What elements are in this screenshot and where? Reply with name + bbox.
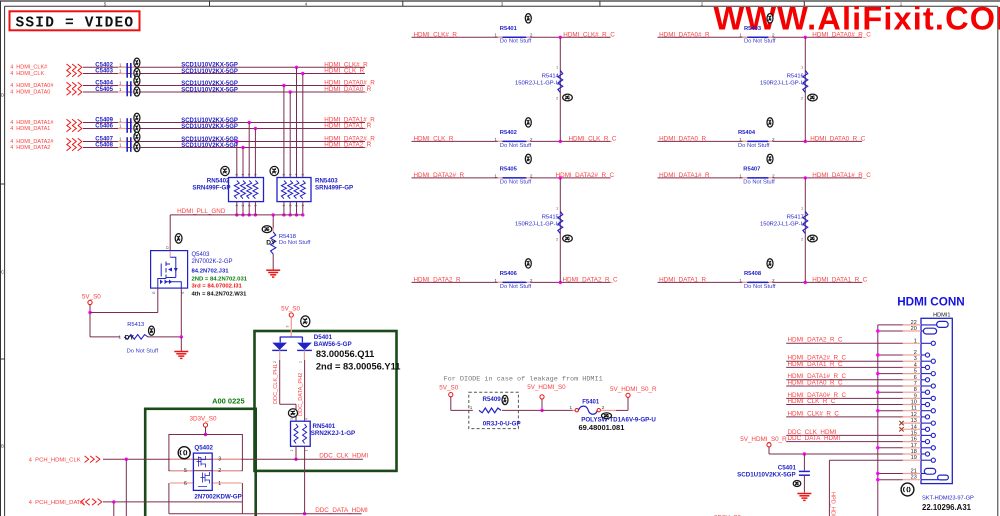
svg-text:3: 3 bbox=[241, 204, 245, 206]
svg-text:5V_HDMI_S0_R: 5V_HDMI_S0_R bbox=[610, 386, 657, 393]
svg-text:4 HDMI_DATA2: 4 HDMI_DATA2 bbox=[10, 145, 50, 151]
svg-text:1: 1 bbox=[556, 66, 558, 70]
svg-text:10: 10 bbox=[911, 400, 917, 406]
svg-text:Do Not Stuff: Do Not Stuff bbox=[500, 179, 532, 185]
svg-text:5V_S0: 5V_S0 bbox=[439, 385, 458, 392]
svg-text:SCD1U10V2KX-5GP: SCD1U10V2KX-5GP bbox=[181, 69, 238, 75]
svg-text:1: 1 bbox=[494, 173, 497, 178]
svg-text:Do Not Stuff: Do Not Stuff bbox=[744, 39, 776, 45]
svg-text:HDMI_DATA0#_R: HDMI_DATA0#_R bbox=[659, 31, 710, 38]
svg-text:1: 1 bbox=[494, 137, 497, 142]
svg-text:HDMI_CLK_R: HDMI_CLK_R bbox=[324, 68, 364, 75]
svg-text:R5405: R5405 bbox=[500, 167, 518, 173]
svg-text:2: 2 bbox=[530, 173, 533, 178]
svg-text:2: 2 bbox=[530, 137, 533, 142]
svg-text:R5413: R5413 bbox=[127, 322, 144, 328]
svg-text:69.48001.081: 69.48001.081 bbox=[579, 423, 625, 432]
svg-text:1: 1 bbox=[801, 66, 803, 70]
svg-text:1: 1 bbox=[494, 33, 497, 38]
svg-text:3rd = 84.07002.I31: 3rd = 84.07002.I31 bbox=[192, 284, 243, 290]
svg-text:Q5402: Q5402 bbox=[194, 445, 213, 452]
svg-text:SCD1U10V2KX-5GP: SCD1U10V2KX-5GP bbox=[181, 124, 238, 130]
svg-text:8: 8 bbox=[301, 173, 305, 175]
svg-text:1: 1 bbox=[299, 361, 303, 363]
svg-text:HDMI_DATA0_R_C: HDMI_DATA0_R_C bbox=[810, 136, 866, 143]
svg-text:150R2J-L1-GP-U: 150R2J-L1-GP-U bbox=[515, 222, 560, 228]
svg-text:G: G bbox=[152, 291, 156, 294]
svg-text:Do Not Stuff: Do Not Stuff bbox=[744, 284, 776, 290]
svg-text:4: 4 bbox=[235, 204, 239, 206]
svg-text:4: 4 bbox=[282, 204, 286, 206]
svg-text:7: 7 bbox=[247, 173, 251, 175]
svg-text:2: 2 bbox=[556, 238, 558, 242]
svg-text:R5415: R5415 bbox=[542, 215, 559, 221]
svg-text:1: 1 bbox=[494, 278, 497, 283]
svg-text:6: 6 bbox=[241, 173, 245, 175]
svg-text:D: D bbox=[165, 246, 170, 249]
svg-text:R5404: R5404 bbox=[738, 130, 756, 136]
svg-text:7: 7 bbox=[295, 173, 299, 175]
svg-text:4 PCH_HDMI_DATA: 4 PCH_HDMI_DATA bbox=[29, 500, 84, 506]
svg-text:SRN499F-GP: SRN499F-GP bbox=[192, 184, 230, 191]
svg-text:HDMI_CLK#_R: HDMI_CLK#_R bbox=[414, 31, 458, 38]
svg-text:C5404: C5404 bbox=[95, 81, 113, 87]
svg-text:F5401: F5401 bbox=[582, 400, 600, 406]
svg-text:HPD_HDMI: HPD_HDMI bbox=[830, 492, 836, 516]
svg-text:Do Not Stuff: Do Not Stuff bbox=[743, 179, 775, 185]
svg-text:1: 1 bbox=[556, 207, 558, 211]
svg-text:2N7002KDW-GP: 2N7002KDW-GP bbox=[194, 494, 241, 501]
svg-text:SKT-HDMI23-97-GP: SKT-HDMI23-97-GP bbox=[922, 496, 974, 502]
svg-text:HDMI_CLK_R_C: HDMI_CLK_R_C bbox=[569, 136, 617, 143]
svg-text:HDMI_DATA2#_R: HDMI_DATA2#_R bbox=[414, 172, 465, 179]
svg-text:R5402: R5402 bbox=[500, 130, 517, 136]
svg-text:3: 3 bbox=[914, 356, 917, 362]
svg-text:7: 7 bbox=[914, 381, 917, 387]
svg-text:SCD1U10V2KX-5GP: SCD1U10V2KX-5GP bbox=[181, 81, 238, 87]
svg-text:HDMI_DATA2_R: HDMI_DATA2_R bbox=[414, 277, 461, 284]
svg-text:14: 14 bbox=[911, 424, 917, 430]
svg-text:1: 1 bbox=[569, 405, 572, 410]
svg-text:1: 1 bbox=[218, 481, 221, 487]
svg-text:5: 5 bbox=[914, 369, 917, 375]
svg-text:HDMI_DATA0_R: HDMI_DATA0_R bbox=[324, 86, 371, 93]
svg-text:SCD1U10V2KX-5GP: SCD1U10V2KX-5GP bbox=[737, 472, 795, 479]
svg-text:18: 18 bbox=[911, 449, 917, 455]
svg-text:9: 9 bbox=[914, 393, 917, 399]
svg-text:2: 2 bbox=[772, 278, 775, 283]
svg-text:A00 0225: A00 0225 bbox=[212, 396, 245, 405]
svg-text:SCD1U10V2KX-5GP: SCD1U10V2KX-5GP bbox=[181, 87, 238, 93]
svg-text:4: 4 bbox=[914, 362, 917, 368]
svg-text:SRN2K2J-1-GP: SRN2K2J-1-GP bbox=[311, 430, 355, 437]
svg-text:6: 6 bbox=[288, 173, 292, 175]
svg-text:R5409: R5409 bbox=[483, 396, 502, 403]
svg-text:C5405: C5405 bbox=[95, 87, 113, 93]
svg-text:HDMI_DATA2#_R_C: HDMI_DATA2#_R_C bbox=[556, 172, 615, 179]
svg-text:R5403: R5403 bbox=[744, 26, 762, 32]
svg-text:HDMI_DATA1_R: HDMI_DATA1_R bbox=[324, 123, 371, 130]
svg-text:2: 2 bbox=[772, 137, 775, 142]
svg-text:17: 17 bbox=[911, 443, 917, 449]
svg-text:2: 2 bbox=[772, 33, 775, 38]
svg-text:RN5401: RN5401 bbox=[313, 423, 336, 430]
svg-text:1: 1 bbox=[739, 278, 742, 283]
svg-text:2ND = 84.2N702.031: 2ND = 84.2N702.031 bbox=[192, 276, 248, 282]
svg-text:4th = 84.2N702.W31: 4th = 84.2N702.W31 bbox=[192, 291, 248, 297]
svg-text:HDMI_DATA0_R: HDMI_DATA0_R bbox=[659, 136, 706, 143]
svg-text:2: 2 bbox=[273, 361, 277, 363]
svg-text:Do Not Stuff: Do Not Stuff bbox=[500, 39, 532, 45]
svg-text:SSID = VIDEO: SSID = VIDEO bbox=[16, 15, 135, 31]
svg-text:HDMI_DATA2_R: HDMI_DATA2_R bbox=[324, 142, 371, 149]
svg-text:R5407: R5407 bbox=[743, 167, 760, 173]
svg-text:Do Not Stuff: Do Not Stuff bbox=[127, 349, 159, 355]
svg-text:83.00056.Q11: 83.00056.Q11 bbox=[316, 349, 374, 359]
svg-text:1: 1 bbox=[739, 137, 742, 142]
svg-text:150R2J-L1-GP-U: 150R2J-L1-GP-U bbox=[760, 81, 805, 87]
svg-text:Do Not Stuff: Do Not Stuff bbox=[738, 143, 770, 149]
svg-text:16: 16 bbox=[911, 437, 917, 443]
svg-text:HDMI_DATA1_R: HDMI_DATA1_R bbox=[659, 277, 706, 284]
svg-text:DDC_DATA_HDMI: DDC_DATA_HDMI bbox=[315, 507, 368, 514]
svg-text:5V_S0: 5V_S0 bbox=[82, 294, 101, 301]
svg-text:HDMI_DATA1_R_C: HDMI_DATA1_R_C bbox=[788, 361, 844, 368]
svg-text:1: 1 bbox=[254, 204, 258, 206]
svg-text:3D3V_S0: 3D3V_S0 bbox=[190, 416, 217, 423]
svg-text:DY: DY bbox=[125, 334, 135, 341]
svg-text:BAW56-5-GP: BAW56-5-GP bbox=[314, 341, 352, 348]
svg-text:DDC_CLK_PH1: DDC_CLK_PH1 bbox=[273, 364, 279, 404]
svg-text:C5403: C5403 bbox=[95, 69, 113, 75]
svg-text:HDMI_DATA0_R_C: HDMI_DATA0_R_C bbox=[788, 379, 844, 386]
svg-text:15: 15 bbox=[911, 430, 917, 436]
svg-text:4 HDMI_DATA0#: 4 HDMI_DATA0# bbox=[10, 83, 54, 89]
svg-text:R5414: R5414 bbox=[542, 74, 560, 80]
svg-text:23: 23 bbox=[911, 475, 917, 481]
svg-text:DDC_DATA_HDMI: DDC_DATA_HDMI bbox=[788, 435, 841, 442]
svg-text:22: 22 bbox=[911, 320, 917, 326]
svg-text:5V_S0: 5V_S0 bbox=[281, 306, 300, 313]
svg-text:HDMI_CLK#_R_C: HDMI_CLK#_R_C bbox=[563, 31, 615, 38]
svg-text:SCD1U10V2KX-5GP: SCD1U10V2KX-5GP bbox=[181, 143, 238, 149]
svg-text:1: 1 bbox=[739, 173, 742, 178]
svg-text:5: 5 bbox=[282, 173, 286, 175]
svg-text:3: 3 bbox=[290, 418, 294, 420]
svg-text:1: 1 bbox=[914, 338, 917, 344]
svg-text:5: 5 bbox=[235, 173, 239, 175]
svg-text:D5401: D5401 bbox=[314, 334, 333, 341]
svg-text:0R3J-0-U-GP: 0R3J-0-U-GP bbox=[483, 420, 521, 427]
svg-text:3: 3 bbox=[286, 325, 290, 327]
svg-text:2: 2 bbox=[556, 97, 558, 101]
svg-text:5V_HDMI_S0_R: 5V_HDMI_S0_R bbox=[740, 436, 787, 443]
svg-text:1: 1 bbox=[739, 33, 742, 38]
svg-text:Do Not Stuff: Do Not Stuff bbox=[500, 143, 532, 149]
svg-text:HDMI_DATA1#_R: HDMI_DATA1#_R bbox=[659, 172, 710, 179]
svg-text:3: 3 bbox=[288, 204, 292, 206]
svg-text:C5406: C5406 bbox=[95, 124, 113, 130]
svg-text:2: 2 bbox=[530, 33, 533, 38]
svg-text:1: 1 bbox=[305, 449, 309, 451]
svg-text:R5408: R5408 bbox=[744, 271, 762, 277]
svg-text:R5406: R5406 bbox=[500, 271, 518, 277]
svg-text:2N7002K-2-GP: 2N7002K-2-GP bbox=[192, 259, 233, 265]
svg-text:HDMI_DATA1#_R_C: HDMI_DATA1#_R_C bbox=[812, 172, 871, 179]
svg-text:19: 19 bbox=[911, 455, 917, 461]
svg-text:2: 2 bbox=[602, 405, 605, 410]
svg-text:4 HDMI_DATA1: 4 HDMI_DATA1 bbox=[10, 126, 50, 132]
svg-text:4 HDMI_DATA0: 4 HDMI_DATA0 bbox=[10, 89, 50, 95]
svg-text:R5401: R5401 bbox=[500, 26, 518, 32]
svg-text:4: 4 bbox=[305, 418, 309, 420]
svg-text:1: 1 bbox=[301, 204, 305, 206]
svg-text:R5416: R5416 bbox=[787, 74, 804, 80]
svg-text:2: 2 bbox=[914, 350, 917, 356]
svg-text:8: 8 bbox=[254, 173, 258, 175]
svg-text:HDMI CONN: HDMI CONN bbox=[897, 296, 965, 309]
svg-text:C5401: C5401 bbox=[778, 464, 797, 471]
svg-text:HDMI_CLK_R: HDMI_CLK_R bbox=[414, 136, 454, 143]
svg-text:1: 1 bbox=[801, 207, 803, 211]
svg-text:84.2N702.J31: 84.2N702.J31 bbox=[192, 268, 230, 274]
svg-text:Do Not Stuff: Do Not Stuff bbox=[500, 284, 532, 290]
svg-text:2: 2 bbox=[247, 204, 251, 206]
svg-text:8: 8 bbox=[914, 387, 917, 393]
svg-text:HDMI_DATA1_R_C: HDMI_DATA1_R_C bbox=[812, 277, 868, 284]
svg-text:B: B bbox=[1, 444, 4, 449]
svg-text:2: 2 bbox=[801, 97, 803, 101]
svg-text:HDMI_CLK_R_C: HDMI_CLK_R_C bbox=[788, 398, 836, 405]
svg-text:DY: DY bbox=[266, 240, 276, 247]
svg-text:2nd = 83.00056.Y11: 2nd = 83.00056.Y11 bbox=[316, 361, 401, 371]
svg-text:21: 21 bbox=[911, 469, 917, 475]
svg-text:5V_HDMI_S0: 5V_HDMI_S0 bbox=[527, 384, 566, 391]
svg-text:6: 6 bbox=[184, 481, 187, 487]
svg-text:Q5403: Q5403 bbox=[192, 252, 211, 258]
svg-text:12: 12 bbox=[911, 412, 917, 418]
svg-text:2: 2 bbox=[295, 204, 299, 206]
svg-text:DDC_DATA_PH2: DDC_DATA_PH2 bbox=[298, 373, 304, 416]
svg-text:2: 2 bbox=[801, 238, 803, 242]
svg-text:SRN499F-GP: SRN499F-GP bbox=[315, 184, 353, 191]
svg-text:HDMI_DATA0#_R_C: HDMI_DATA0#_R_C bbox=[812, 31, 871, 38]
svg-text:Do Not Stuff: Do Not Stuff bbox=[279, 240, 311, 246]
svg-text:SCD1U10V2KX-5GP: SCD1U10V2KX-5GP bbox=[181, 63, 238, 69]
svg-text:20: 20 bbox=[911, 326, 917, 332]
svg-text:5: 5 bbox=[184, 468, 187, 474]
svg-text:11: 11 bbox=[911, 406, 917, 412]
svg-text:C5408: C5408 bbox=[95, 143, 113, 149]
svg-text:HDMI_DATA2_R_C: HDMI_DATA2_R_C bbox=[563, 277, 619, 284]
svg-text:HDMI_DATA2_R_C: HDMI_DATA2_R_C bbox=[788, 337, 844, 344]
svg-text:For DIODE in case of leakage f: For DIODE in case of leakage from HDMI1 bbox=[444, 376, 603, 384]
svg-text:R5417: R5417 bbox=[787, 215, 804, 221]
svg-text:150R2J-L1-GP-U: 150R2J-L1-GP-U bbox=[515, 81, 560, 87]
svg-text:13: 13 bbox=[911, 418, 917, 424]
svg-text:C5402: C5402 bbox=[95, 63, 113, 69]
svg-text:150R2J-L1-GP-U: 150R2J-L1-GP-U bbox=[760, 222, 805, 228]
svg-text:R5418: R5418 bbox=[279, 234, 296, 240]
svg-text:3: 3 bbox=[218, 457, 221, 463]
svg-text:HDMI_PLL_GND: HDMI_PLL_GND bbox=[177, 208, 226, 215]
svg-text:4 PCH_HDMI_CLK: 4 PCH_HDMI_CLK bbox=[29, 457, 81, 463]
svg-text:2: 2 bbox=[290, 449, 294, 451]
svg-text:2: 2 bbox=[530, 278, 533, 283]
svg-text:6: 6 bbox=[914, 375, 917, 381]
svg-text:4 HDMI_CLK: 4 HDMI_CLK bbox=[10, 71, 44, 77]
svg-text:4 HDMI_CLK#: 4 HDMI_CLK# bbox=[10, 65, 48, 71]
svg-text:22.10296.A31: 22.10296.A31 bbox=[922, 503, 972, 512]
svg-text:2: 2 bbox=[772, 173, 775, 178]
svg-text:HDMI_CLK#_R_C: HDMI_CLK#_R_C bbox=[788, 410, 840, 417]
svg-text:2: 2 bbox=[218, 468, 221, 474]
svg-text:DDC_CLK_HDMI: DDC_CLK_HDMI bbox=[319, 452, 368, 459]
